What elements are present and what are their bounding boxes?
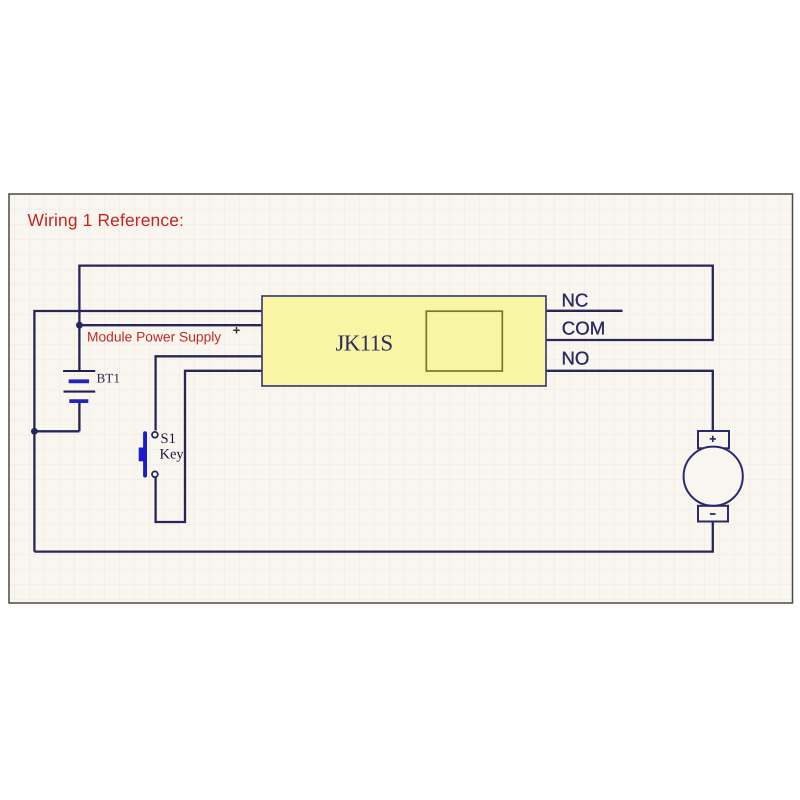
svg-text:Wiring 1 Reference:: Wiring 1 Reference: bbox=[28, 210, 185, 230]
motor bottom terminal box bbox=[698, 506, 728, 522]
switch S1 top terminal bbox=[152, 432, 158, 438]
motor minus mark bbox=[710, 513, 716, 515]
junction dot at supply node bbox=[76, 322, 83, 329]
switch S1 bottom terminal bbox=[152, 471, 158, 477]
wire battery to left rail bbox=[34, 430, 79, 432]
wire battery top lead bbox=[78, 325, 80, 370]
motor plus mark bbox=[710, 436, 716, 442]
switch S1 actuator bar bbox=[143, 431, 147, 477]
svg-text:NC: NC bbox=[562, 289, 589, 310]
motor M1 top terminal box bbox=[698, 431, 729, 448]
wire NO to motor bbox=[533, 371, 713, 431]
svg-text:Key: Key bbox=[160, 447, 185, 463]
wire pin3 to switch top bbox=[156, 356, 274, 430]
motor body circle bbox=[684, 447, 743, 506]
svg-text:COM: COM bbox=[562, 318, 605, 339]
wire pin2 supply bbox=[79, 324, 274, 326]
wire top loop (COM to top-left) bbox=[79, 266, 712, 340]
module inner rectangle bbox=[426, 311, 502, 371]
junction dot at left rail bbox=[31, 428, 38, 435]
svg-text:S1: S1 bbox=[161, 431, 176, 447]
wire bottom rail bbox=[34, 522, 712, 552]
battery BT1 plates bbox=[63, 371, 95, 401]
wire pin1 (left vertical top corner to module) bbox=[34, 311, 274, 552]
switch S1 button knob bbox=[139, 448, 145, 462]
svg-text:BT1: BT1 bbox=[97, 371, 120, 386]
schematic sheet frame bbox=[9, 194, 793, 603]
wire switch bottom to pin4 bbox=[156, 371, 274, 522]
svg-text:Module Power Supply: Module Power Supply bbox=[87, 330, 221, 345]
wire battery bottom lead bbox=[78, 402, 80, 432]
svg-text:NO: NO bbox=[562, 348, 590, 369]
wire NC stub bbox=[533, 310, 623, 312]
plus sign at supply pin bbox=[233, 327, 239, 333]
module JK11S body bbox=[262, 296, 546, 386]
svg-text:JK11S: JK11S bbox=[336, 331, 393, 356]
